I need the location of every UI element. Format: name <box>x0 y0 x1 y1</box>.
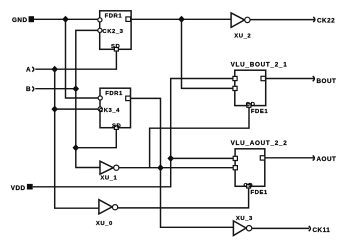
pin BOUT in1 square <box>233 76 237 80</box>
pin AOUT CD square <box>247 184 251 188</box>
wire BOUT Q output <box>266 78 315 80</box>
wire XU_3 output <box>252 227 309 229</box>
svg-text:GND: GND <box>12 17 28 24</box>
svg-text:FDR1: FDR1 <box>105 91 123 97</box>
pin AOUT Q square <box>260 156 265 160</box>
svg-text:XU_3: XU_3 <box>236 216 253 222</box>
port AOUT bracket <box>313 155 315 160</box>
pin FF2 SD square <box>114 126 118 130</box>
flip-flop U FF1 box <box>100 11 131 50</box>
svg-text:B: B <box>26 86 31 93</box>
svg-text:XU_0: XU_0 <box>96 221 113 227</box>
node junction B / vertical <box>73 85 80 92</box>
svg-text:VLU_BOUT_2_1: VLU_BOUT_2_1 <box>231 61 288 68</box>
svg-text:VLU_AOUT_2_2: VLU_AOUT_2_2 <box>231 140 288 147</box>
pin AOUT in2 square <box>233 166 237 170</box>
svg-text:AOUT: AOUT <box>317 156 337 163</box>
svg-text:CK3_4: CK3_4 <box>99 108 120 114</box>
pin FF1 SD square <box>114 47 118 51</box>
node junction VDD vertical / AOUT pin1 row <box>167 155 174 162</box>
svg-text:CD: CD <box>246 102 256 108</box>
port CK22 bracket <box>313 17 315 22</box>
svg-text:FDE1: FDE1 <box>251 109 268 115</box>
register U AOUT box VLU_AOUT_2_2 <box>231 140 288 196</box>
wire FF2 Q to XU_3 input <box>130 98 233 227</box>
inverter XU_3 <box>233 216 253 236</box>
svg-text:VDD: VDD <box>11 185 26 192</box>
svg-text:A: A <box>26 66 31 73</box>
port VDD terminal square <box>27 184 33 190</box>
node junction B vertical / FF2 SD row <box>73 144 80 151</box>
svg-text:CK11: CK11 <box>313 227 331 234</box>
pin FF1 D bubble <box>98 18 102 22</box>
node junction A / vertical <box>51 66 58 73</box>
wire GND vertical down to FF2 D <box>66 19 99 98</box>
port GND terminal square <box>29 16 34 22</box>
pin FF1 Q square <box>126 17 131 22</box>
wire XU_1 output to AOUT pin2 <box>119 167 235 169</box>
port B bracket <box>32 87 34 92</box>
wire GND horizontal to FF1 D <box>34 18 98 20</box>
svg-text:CK22: CK22 <box>317 18 335 25</box>
pin BOUT Q square <box>261 76 266 80</box>
pin BOUT in2 square <box>233 86 237 90</box>
pin FF2 Q square <box>126 96 131 101</box>
wire FF1 CK from corner <box>76 30 100 167</box>
svg-text:SD: SD <box>112 123 121 129</box>
pin BOUT CD square <box>247 104 251 108</box>
wire FF2 CK row <box>55 108 98 110</box>
pin FF2 D bubble <box>98 96 102 100</box>
port CK11 bracket <box>309 226 311 231</box>
node junction GND vertical <box>62 16 69 23</box>
wire AOUT Q output <box>265 157 315 159</box>
svg-text:FDR1: FDR1 <box>105 13 123 19</box>
node junction A vertical / FF2 CK <box>51 106 58 113</box>
wire FF2 SD <box>76 128 117 148</box>
wire VDD rail to right vertical <box>33 79 235 187</box>
svg-text:SD: SD <box>111 44 120 50</box>
port A bracket <box>32 67 34 72</box>
wire AOUT pin1 row <box>171 157 235 159</box>
svg-text:BOUT: BOUT <box>317 78 337 85</box>
inverter XU_1 <box>100 161 119 181</box>
svg-text:CK2_3: CK2_3 <box>102 29 123 35</box>
register U BOUT box VLU_BOUT_2_1 <box>231 61 288 114</box>
pin FF1 CK bubble <box>98 28 102 32</box>
inverter XU_0 <box>96 200 118 227</box>
wire FF1 Q vertical to BOUT pin2 <box>182 19 236 88</box>
port BOUT bracket <box>313 76 315 81</box>
svg-text:XU_1: XU_1 <box>100 175 117 181</box>
pin AOUT in1 square <box>233 156 237 160</box>
pin FF2 CK bubble <box>98 107 102 111</box>
wire CD of BOUT down-left to XU_1 output <box>150 106 249 168</box>
svg-text:CD: CD <box>244 183 254 189</box>
inverter XU_2 <box>231 13 251 39</box>
wire A row <box>35 49 116 69</box>
svg-text:XU_2: XU_2 <box>234 33 251 39</box>
node junction XU_1 output / FF2 Q vertical <box>157 164 164 171</box>
svg-text:FDE1: FDE1 <box>251 190 268 196</box>
wire XU_0 output to AOUT CD <box>118 186 249 208</box>
wire B row <box>35 88 76 90</box>
wire A vertical down to XU_0 input <box>55 69 99 208</box>
node junction FF1 Q / BOUT pin2 vertical <box>178 16 185 23</box>
wire FF1 Q output row <box>131 18 231 20</box>
flip-flop U FF2 box <box>100 88 131 128</box>
wire XU_2 output <box>250 19 315 21</box>
